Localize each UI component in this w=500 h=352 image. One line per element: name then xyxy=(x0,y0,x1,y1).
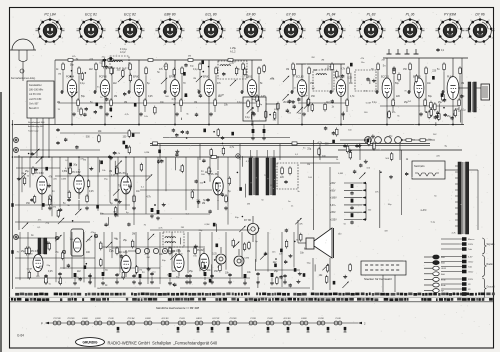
svg-text:0,1µ: 0,1µ xyxy=(237,102,242,104)
ground xyxy=(129,184,131,186)
wire xyxy=(217,200,219,210)
capacitor C336 xyxy=(151,272,153,273)
svg-text:0,1: 0,1 xyxy=(295,154,299,156)
resistor R24 xyxy=(430,101,432,103)
svg-text:47k: 47k xyxy=(217,83,222,85)
capacitor C12 xyxy=(298,98,300,99)
junction xyxy=(71,70,73,72)
capacitor C8 xyxy=(367,77,369,78)
ground xyxy=(186,280,188,282)
svg-text:5n: 5n xyxy=(344,224,347,226)
svg-text:25µ: 25µ xyxy=(102,56,106,58)
capacitor C43 xyxy=(69,163,72,167)
wire cathode U8 xyxy=(340,101,342,112)
wire cathode U3 xyxy=(138,101,140,112)
heater DY86 xyxy=(317,321,321,325)
svg-text:2: 2 xyxy=(339,20,341,22)
svg-text:1: 1 xyxy=(330,17,332,19)
resistor R69 xyxy=(202,261,204,263)
svg-text:0,25: 0,25 xyxy=(212,254,217,256)
svg-text:1n: 1n xyxy=(142,272,145,274)
capacitor C37 xyxy=(293,105,295,106)
svg-text:3: 3 xyxy=(423,28,425,30)
wire grid U8 xyxy=(331,72,333,93)
capacitor grid U7 xyxy=(290,91,291,93)
resistor R16 xyxy=(256,94,258,96)
tube V42 EC C81 xyxy=(174,254,184,271)
svg-text:2M: 2M xyxy=(321,59,324,61)
junction xyxy=(208,66,210,68)
potentiometer xyxy=(304,102,310,108)
ground xyxy=(372,134,374,136)
resistor R37 xyxy=(24,176,26,178)
wire drop U11 xyxy=(452,112,454,125)
resistor R66 xyxy=(45,276,47,278)
tube U4 EF80 xyxy=(170,80,179,97)
capacitor C1 xyxy=(109,57,112,61)
capacitor grid U6 xyxy=(240,91,241,93)
resistor R8 xyxy=(110,66,112,68)
junction xyxy=(380,171,382,173)
svg-text:10n: 10n xyxy=(349,83,354,85)
shield box 3 xyxy=(313,70,334,91)
svg-text:7: 7 xyxy=(198,38,200,40)
wire grid U3 xyxy=(129,72,131,93)
wire xyxy=(459,110,461,123)
line transformer T3 xyxy=(249,158,252,195)
svg-text:5: 5 xyxy=(54,44,56,46)
svg-text:PL84: PL84 xyxy=(447,76,453,79)
capacitor C2 xyxy=(103,58,105,59)
capacitor C70 xyxy=(239,187,242,191)
svg-text:Netztrafo: Netztrafo xyxy=(414,164,425,168)
wire xyxy=(216,224,218,232)
svg-text:70: 70 xyxy=(105,270,108,272)
ground U3 xyxy=(140,112,142,114)
svg-text:DY 86: DY 86 xyxy=(244,219,252,222)
svg-text:70: 70 xyxy=(144,225,147,227)
heater EB91 xyxy=(195,321,199,325)
capacitor grid U5 xyxy=(197,91,198,93)
svg-text:0,1: 0,1 xyxy=(37,227,41,229)
svg-text:2k2: 2k2 xyxy=(408,101,412,103)
dashed box filter xyxy=(163,232,184,247)
resistor cathode U6 xyxy=(257,98,259,100)
capacitor C47 xyxy=(31,152,33,153)
tube U2 PCF80 xyxy=(100,80,109,97)
potentiometer xyxy=(22,223,28,229)
svg-text:47k: 47k xyxy=(72,56,76,58)
jack J3 xyxy=(14,235,19,240)
capacitor C16 xyxy=(196,113,198,114)
svg-text:4: 4 xyxy=(343,38,345,40)
ground xyxy=(359,144,361,146)
svg-text:1n: 1n xyxy=(291,206,294,208)
capacitor left col xyxy=(11,203,13,207)
resistor R77 xyxy=(276,276,278,278)
svg-text:100: 100 xyxy=(117,70,122,72)
wire xyxy=(78,200,80,210)
resistor R47 xyxy=(191,190,193,192)
capacitor C25 xyxy=(110,108,113,112)
ground xyxy=(148,267,150,269)
svg-text:220: 220 xyxy=(396,96,401,98)
parts list table rows xyxy=(15,293,19,296)
resistor R11 xyxy=(263,64,265,66)
svg-text:10n: 10n xyxy=(136,191,141,193)
resistor R260 xyxy=(404,139,406,141)
resistor anode U10 xyxy=(409,62,411,64)
ground xyxy=(176,150,178,152)
ground U4 xyxy=(176,112,178,114)
capacitor C330 xyxy=(59,272,61,273)
svg-text:PCF80: PCF80 xyxy=(99,76,107,79)
svg-text:0,5M: 0,5M xyxy=(27,269,32,271)
ground xyxy=(49,206,51,208)
resistor R75 xyxy=(300,233,302,235)
svg-text:G 64: G 64 xyxy=(17,334,24,338)
ground U7 xyxy=(303,112,305,114)
svg-text:A 1,2: A 1,2 xyxy=(230,51,236,54)
capacitor C342 xyxy=(257,272,259,273)
svg-text:10n: 10n xyxy=(207,270,212,272)
svg-text:PCF80: PCF80 xyxy=(68,318,76,320)
resistor anode U9 xyxy=(377,62,379,64)
brace group Radio xyxy=(482,256,487,277)
svg-text:PL82: PL82 xyxy=(267,318,273,320)
svg-text:25µ: 25µ xyxy=(274,271,279,273)
ground xyxy=(349,149,351,151)
mains transformer T5 xyxy=(458,162,461,234)
dashed box booster xyxy=(277,163,298,189)
resistor cathode U7 xyxy=(307,98,309,100)
svg-text:2M: 2M xyxy=(283,102,286,104)
resistor screen U4 xyxy=(181,66,183,68)
ground xyxy=(390,175,392,177)
svg-text:4,7k: 4,7k xyxy=(452,232,457,234)
svg-text:8: 8 xyxy=(77,28,79,30)
potentiometer xyxy=(322,264,328,270)
svg-text:30p: 30p xyxy=(389,135,393,137)
potentiometer xyxy=(170,253,176,259)
connector P1 xyxy=(424,256,433,258)
capacitor C334 xyxy=(116,273,118,274)
junction xyxy=(443,107,445,109)
svg-text:10n: 10n xyxy=(94,236,98,238)
svg-text:2M: 2M xyxy=(314,70,317,72)
pot P4 xyxy=(230,80,236,86)
jack J1 xyxy=(14,138,19,143)
svg-text:4: 4 xyxy=(142,38,144,40)
svg-text:0,1: 0,1 xyxy=(186,213,190,215)
tube U3 EF80 xyxy=(134,80,143,97)
svg-text:8: 8 xyxy=(237,28,239,30)
capacitor C64 xyxy=(209,210,211,211)
svg-text:30p: 30p xyxy=(252,99,256,101)
svg-text:0,5M: 0,5M xyxy=(219,95,224,97)
svg-text:50µ: 50µ xyxy=(395,83,400,85)
resistor R18 xyxy=(434,102,436,104)
wire screen U3 xyxy=(145,76,147,104)
svg-text:Takt: Takt xyxy=(468,248,472,251)
svg-text:mit PC C84: mit PC C84 xyxy=(29,93,41,96)
svg-text:Fernsehantennen–Eing.: Fernsehantennen–Eing. xyxy=(11,77,36,80)
tube V21 PC F82 xyxy=(74,175,84,193)
capacitor C81 xyxy=(120,254,122,255)
resistor R46 xyxy=(210,148,212,150)
capacitor C63 xyxy=(360,164,362,165)
potentiometer xyxy=(295,218,301,224)
resistor R15 xyxy=(324,103,326,105)
svg-text:70: 70 xyxy=(183,83,186,85)
capacitor C340 xyxy=(229,273,231,274)
svg-text:47k: 47k xyxy=(299,224,303,226)
resistor R73 xyxy=(327,264,329,266)
ground xyxy=(163,203,165,205)
bus mid2 xyxy=(14,156,338,158)
svg-text:1M: 1M xyxy=(298,113,301,115)
resistor R49 xyxy=(181,164,183,166)
capacitor C300 xyxy=(45,274,47,275)
svg-text:1n: 1n xyxy=(294,88,297,90)
svg-text:47k: 47k xyxy=(361,58,365,60)
junction xyxy=(208,124,210,126)
svg-text:1: 1 xyxy=(169,17,171,19)
svg-text:EF80: EF80 xyxy=(133,76,140,79)
capacitor heater xyxy=(287,327,290,330)
parts list rule 1 xyxy=(10,296,494,298)
svg-text:8µ: 8µ xyxy=(147,83,150,85)
svg-text:220: 220 xyxy=(279,253,283,255)
svg-text:47k: 47k xyxy=(91,232,95,234)
svg-text:2: 2 xyxy=(58,20,60,22)
svg-text:1k: 1k xyxy=(31,235,34,237)
resistor R29 xyxy=(274,111,276,113)
svg-text:0,5M: 0,5M xyxy=(62,171,67,173)
heater PCC88 xyxy=(53,321,57,325)
brace group Ground xyxy=(482,278,487,299)
svg-text:25µ: 25µ xyxy=(259,104,263,106)
svg-text:PL36: PL36 xyxy=(108,318,114,320)
power transformer box xyxy=(412,161,445,179)
wire mesh mid h xyxy=(300,162,340,164)
wire drop U6 xyxy=(251,112,253,125)
ground xyxy=(289,254,291,256)
svg-text:0,25: 0,25 xyxy=(109,251,114,253)
capacitor C7 xyxy=(183,72,186,76)
resistor R71 xyxy=(60,276,62,278)
pot P2 xyxy=(161,78,167,84)
capacitor C46 xyxy=(115,213,117,214)
resistor R19 xyxy=(265,110,267,112)
connector P7 xyxy=(424,290,433,292)
ground xyxy=(45,280,47,282)
resistor R207 xyxy=(225,194,227,196)
resistor R30 xyxy=(308,98,310,100)
svg-text:0,25: 0,25 xyxy=(48,271,53,273)
svg-text:Rundfunkteil 806: Rundfunkteil 806 xyxy=(28,121,45,124)
resistor cathode U4 xyxy=(180,98,182,100)
resistor R22 xyxy=(277,102,279,104)
heater ECC81 xyxy=(212,321,216,325)
svg-text:PY88: PY88 xyxy=(250,318,256,320)
heater PL36 xyxy=(334,321,338,325)
wire mid vertical xyxy=(313,140,315,230)
wire cathode U4 xyxy=(174,101,176,112)
svg-text:10k: 10k xyxy=(98,131,103,133)
svg-text:30p: 30p xyxy=(176,277,180,279)
wire xyxy=(180,238,182,245)
capacitor C3 xyxy=(185,63,187,64)
resistor anode U8 xyxy=(331,62,333,64)
svg-text:PL36: PL36 xyxy=(335,318,341,320)
capacitor C82 xyxy=(67,264,69,265)
pot P3 xyxy=(196,76,202,82)
bus mid1a xyxy=(150,142,430,144)
svg-text:8: 8 xyxy=(466,28,468,30)
ground xyxy=(297,280,299,282)
svg-text:5k: 5k xyxy=(186,113,189,115)
potentiometer xyxy=(146,174,152,180)
svg-text:2M: 2M xyxy=(188,56,191,58)
svg-text:7: 7 xyxy=(37,38,39,40)
wire left column xyxy=(12,120,14,289)
svg-text:1n: 1n xyxy=(201,171,204,173)
wire cathode U1 xyxy=(71,101,73,112)
line transformer T4 xyxy=(266,158,269,195)
junction xyxy=(71,124,73,126)
svg-text:1: 1 xyxy=(370,17,372,19)
capacitor C19 xyxy=(124,92,126,93)
svg-text:0,1µ: 0,1µ xyxy=(193,69,198,71)
capacitor C50 xyxy=(125,145,128,149)
connector P5 xyxy=(424,278,433,280)
antenna leads xyxy=(18,50,20,60)
resistor R31 xyxy=(57,209,59,211)
potentiometer xyxy=(359,173,365,179)
capacitor C55 xyxy=(231,132,234,136)
resistor R203 xyxy=(208,166,210,168)
svg-text:1M: 1M xyxy=(113,211,116,213)
svg-text:Gitter: Gitter xyxy=(468,271,474,274)
wire grid U6 xyxy=(242,72,244,93)
capacitor C310 xyxy=(252,129,255,133)
svg-text:Geh. 807: Geh. 807 xyxy=(29,103,39,105)
svg-text:4: 4 xyxy=(303,38,305,40)
wire xyxy=(314,264,316,271)
wire screen U4 xyxy=(181,76,183,104)
svg-text:5n: 5n xyxy=(437,69,440,71)
connector P4 xyxy=(424,273,433,275)
svg-text:+235V: +235V xyxy=(330,220,337,222)
capacitor C97 xyxy=(285,260,287,261)
capacitor C20 xyxy=(437,111,439,112)
svg-text:10n: 10n xyxy=(232,62,236,64)
tube V50 PY88 xyxy=(216,254,226,264)
detector box xyxy=(243,97,266,121)
junction xyxy=(275,258,277,260)
svg-text:1M: 1M xyxy=(21,173,24,175)
svg-text:2: 2 xyxy=(99,20,101,22)
bus mid1c xyxy=(163,137,290,139)
svg-text:6: 6 xyxy=(246,44,248,46)
junction xyxy=(269,114,271,116)
capacitor C24 xyxy=(331,100,333,101)
svg-text:8: 8 xyxy=(197,28,199,30)
svg-text:47k: 47k xyxy=(392,112,396,114)
junction xyxy=(72,220,74,222)
svg-text:+180V: +180V xyxy=(330,198,337,200)
svg-text:6: 6 xyxy=(125,44,127,46)
wire grid U10 xyxy=(409,72,411,93)
svg-text:UKW: UKW xyxy=(441,268,447,270)
svg-text:1k: 1k xyxy=(336,159,339,161)
svg-text:5n: 5n xyxy=(203,200,206,202)
wire xyxy=(438,104,440,112)
wire cathode U6 xyxy=(251,101,253,112)
junctions mid xyxy=(41,156,43,158)
svg-text:0,5M: 0,5M xyxy=(144,152,149,154)
resistor R64 xyxy=(48,242,50,244)
connector X11 xyxy=(441,288,462,290)
capacitor C30 xyxy=(441,93,444,97)
capacitor C41 xyxy=(128,223,130,224)
svg-text:3: 3 xyxy=(104,28,106,30)
capacitor C67 xyxy=(213,223,216,227)
resistor R45 xyxy=(228,176,230,178)
capacitor C57 xyxy=(203,129,206,133)
svg-text:5n: 5n xyxy=(303,148,306,150)
svg-text:5k: 5k xyxy=(260,83,263,85)
svg-text:6: 6 xyxy=(405,44,407,46)
svg-text:5n: 5n xyxy=(157,72,160,74)
junction xyxy=(214,259,216,261)
svg-text:4: 4 xyxy=(62,38,64,40)
svg-text:2k2: 2k2 xyxy=(368,209,372,211)
resistor R51 xyxy=(368,137,370,139)
capacitor C33 xyxy=(451,116,453,117)
wire screen U2 xyxy=(111,76,113,104)
resistor R54 xyxy=(336,128,338,130)
wire mid vertical2 xyxy=(329,167,331,235)
svg-text:10n: 10n xyxy=(300,253,305,255)
heater PCF80 xyxy=(67,321,71,325)
resistor R206 xyxy=(133,194,135,196)
coil L10 xyxy=(365,137,372,144)
svg-text:0,5M: 0,5M xyxy=(366,102,371,104)
svg-text:PL 83: PL 83 xyxy=(119,172,126,175)
svg-text:4: 4 xyxy=(383,38,385,40)
svg-text:4: 4 xyxy=(223,38,225,40)
svg-text:Radio: Radio xyxy=(487,263,494,266)
capacitor C303 xyxy=(211,274,213,275)
svg-text:3: 3 xyxy=(384,28,386,30)
wire drop U1 xyxy=(71,112,73,125)
capacitor C333 xyxy=(102,272,105,276)
svg-text:186–190 MHz: 186–190 MHz xyxy=(29,90,44,92)
svg-text:25µ: 25µ xyxy=(189,271,194,273)
svg-text:4,7k: 4,7k xyxy=(125,114,130,116)
tuner box xyxy=(27,81,54,118)
capacitor C90 xyxy=(174,283,176,284)
shield box 1 xyxy=(110,56,129,68)
resistor R57 xyxy=(25,246,27,248)
svg-text:2M: 2M xyxy=(202,203,205,205)
svg-text:6: 6 xyxy=(286,44,288,46)
capacitor C88 xyxy=(203,265,206,269)
wire xyxy=(250,113,252,120)
svg-text:30p: 30p xyxy=(190,65,194,67)
